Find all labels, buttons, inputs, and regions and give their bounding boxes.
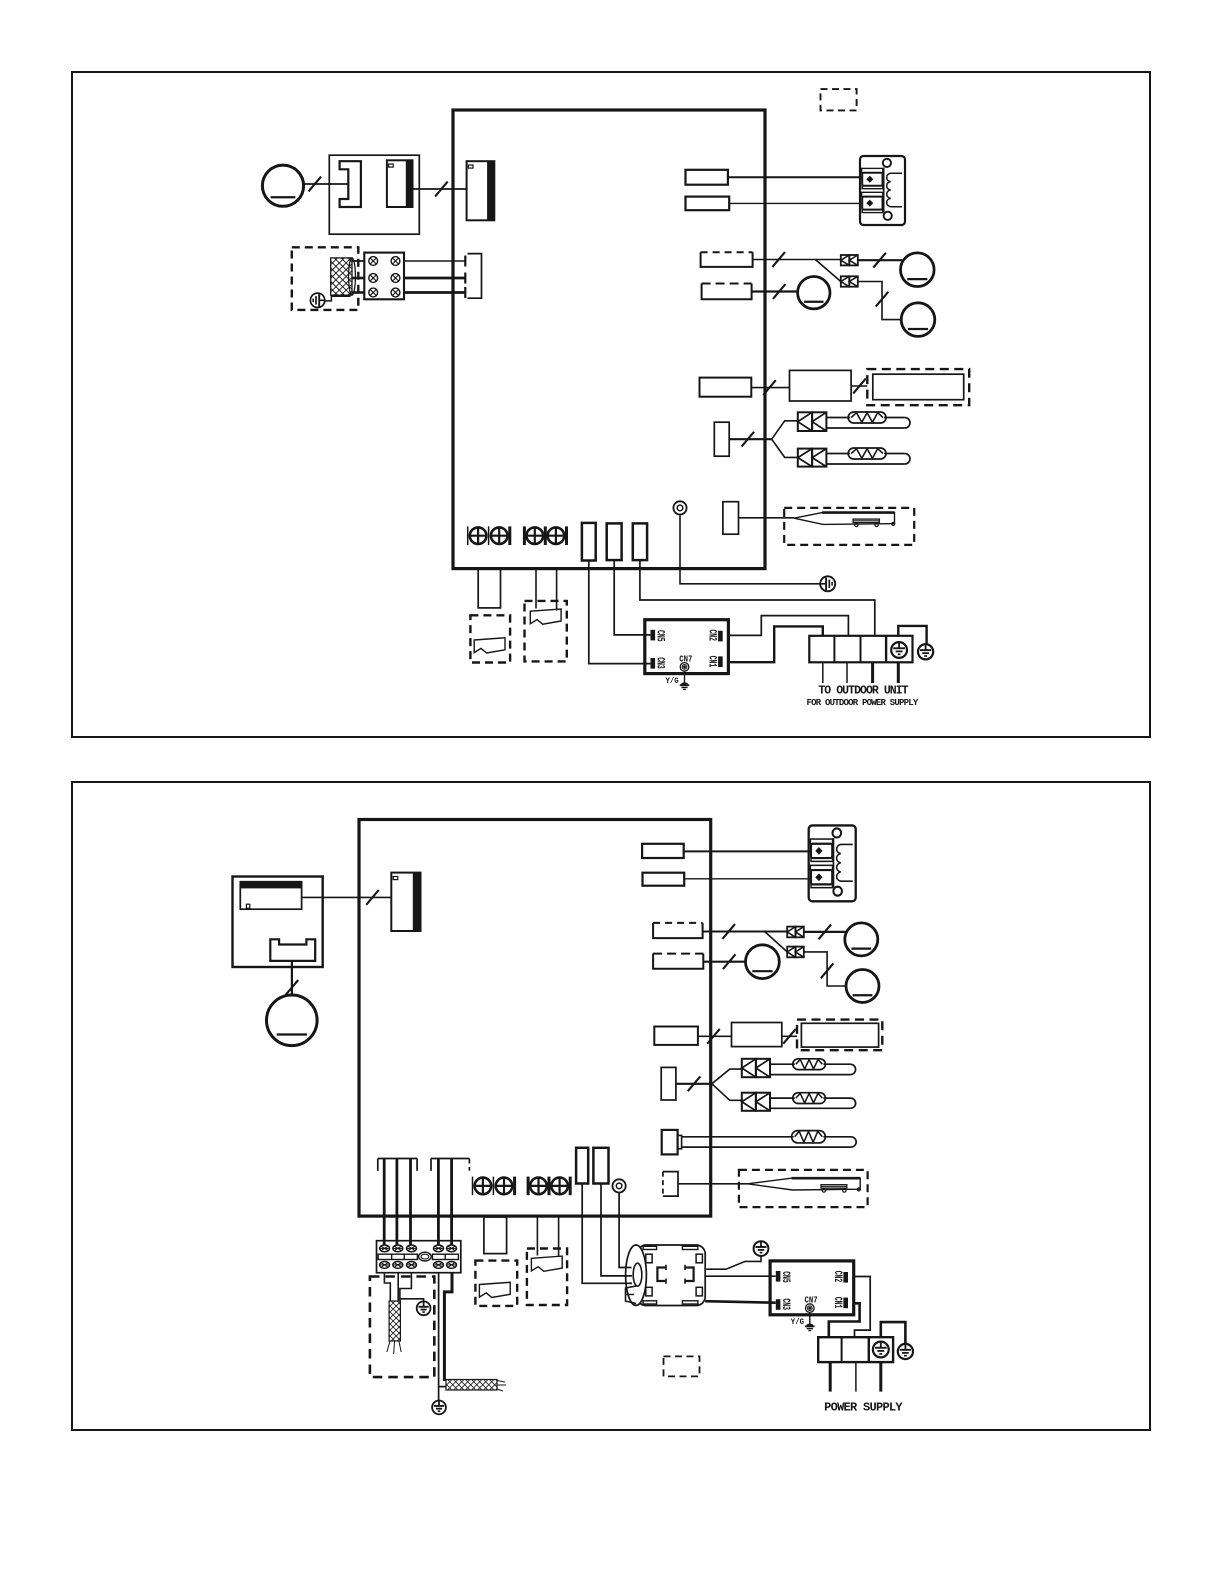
PCB fan connector (diagram 1) [467, 161, 495, 220]
external earth wire [898, 626, 926, 645]
PCB remote connector (diagram 2) [391, 873, 420, 931]
chassis earth (diagram 2) [754, 1241, 769, 1256]
fan motor (diagram 1) [262, 165, 303, 206]
wire X2 to motor 2 [858, 282, 902, 320]
dashed-top box R3 (diagram 2) [653, 923, 703, 938]
external earth wire (diagram 2) [881, 1322, 906, 1344]
wires comb2 to indoor block [438, 1159, 451, 1246]
cord ground [310, 293, 324, 307]
wire to sensor (diagram 2) [678, 1183, 748, 1185]
svg-text:CN2: CN2 [706, 629, 718, 641]
temperature sensor probe (diagram 2) [748, 1178, 861, 1192]
heater connector X3 (diagram 2) [742, 1059, 770, 1077]
battery tray [270, 939, 315, 961]
connector slot 2 (diagram 2) [593, 1148, 608, 1184]
connector flag A (diagram 2) [479, 1282, 510, 1297]
earth wire 4 [439, 1273, 446, 1401]
terminal box R1 [686, 170, 728, 185]
wire remote to PCB connector [302, 890, 392, 905]
wire to cord earth [400, 1299, 423, 1302]
electric heater 1 [826, 412, 910, 428]
indoor terminal block (diagram 2) [377, 1241, 461, 1273]
dashed display box [867, 369, 969, 405]
comb connector 2 [431, 1159, 469, 1171]
wire X1 to motor (diagram 2) [804, 924, 846, 939]
power plug component (diagram 1) [860, 156, 905, 225]
capacitor box [329, 155, 419, 234]
branch diagonal to X2 [815, 260, 841, 282]
svg-text:CN5: CN5 [654, 630, 666, 642]
svg-text:Y/G: Y/G [666, 676, 679, 686]
wire CN2 to outdoor terminal 2 [729, 616, 849, 636]
heater connector X4 (diagram 2) [742, 1093, 770, 1111]
connector slot 3 [633, 523, 647, 560]
wire grommet to ferrite [619, 1193, 631, 1268]
louver motor 1 (diagram 1) [901, 253, 935, 287]
wire V1 to junction [729, 432, 772, 447]
dashed-top box R4 (diagram 2) [653, 954, 703, 969]
power cord dashed box (diagram 2) [370, 1277, 434, 1378]
diagram 2 frame [72, 782, 1150, 1430]
connector flag B (diagram 1) [530, 609, 561, 624]
svg-text:Y/G: Y/G [791, 1317, 804, 1327]
louver motor 3 (diagram 2) [846, 970, 879, 1003]
wire display to dashed box (diagram 2) [782, 1029, 797, 1044]
dashed connector box B (diagram 2) [527, 1249, 567, 1306]
heater connector X4 [798, 449, 827, 467]
sensor dashed box (diagram 2) [739, 1170, 868, 1207]
relay connector in capacitor box [387, 160, 413, 207]
cord wires [384, 1273, 411, 1301]
wire R2 to plug [729, 202, 862, 204]
wire X2 to motor 3 (diagram 2) [804, 952, 845, 986]
external earth (diagram 1) [918, 644, 933, 659]
terminal box R2 (diagram 2) [643, 873, 685, 886]
temperature sensor probe (diagram 1) [794, 513, 895, 527]
wires below screws B [536, 569, 557, 611]
remote display [240, 882, 301, 910]
wire V2 to sensor [739, 517, 795, 519]
wire R3 to connector X1 [753, 252, 841, 267]
wire R4 to motor 2 (diagram 2) [703, 954, 745, 969]
electric heater 2 [826, 448, 910, 464]
terminal box R5 [700, 378, 752, 397]
connector slot 2 [607, 523, 622, 560]
wire CN1 to outdoor terminal 1 [729, 626, 823, 662]
electric heater 2 (diagram 2) [770, 1093, 856, 1109]
sensor connector V2 [723, 502, 739, 535]
wire display to dashed box [851, 379, 867, 394]
electric heater 1 (diagram 2) [770, 1059, 856, 1075]
wire slot2 to ferrite [601, 1184, 632, 1276]
grommet double circle (diagram 1) [673, 501, 686, 514]
wire V1 to junction (diagram 2) [676, 1076, 712, 1091]
connector X2 [841, 276, 858, 286]
wire R2 to plug (diagram 2) [684, 878, 810, 880]
junction branches [772, 421, 798, 458]
svg-text:CN1: CN1 [831, 1297, 843, 1309]
diagram 1 frame [72, 72, 1150, 737]
wire cord ground to coil [325, 296, 351, 301]
wire ferrite to CN5 [705, 1275, 776, 1277]
louver motor 2 (diagram 2) [746, 945, 780, 979]
wire chassis earth to ferrite [706, 1256, 761, 1269]
wire ferrite to CN3 [705, 1301, 776, 1303]
cable stub below screws A (diagram 2) [484, 1217, 507, 1254]
louver motor 1 (diagram 2) [845, 923, 878, 956]
sensor dashed box (diagram 1) [784, 508, 914, 545]
power cord dashed box (diagram 1) [292, 247, 359, 310]
indoor terminal block (diagram 1) [364, 253, 404, 300]
PCB power connector bracket [465, 254, 481, 299]
connector flag B (diagram 2) [531, 1256, 562, 1271]
cord braid [387, 1301, 401, 1354]
external earth (diagram 2) [898, 1344, 913, 1359]
wires below screws B (diagram 2) [537, 1216, 558, 1257]
ferrite core filter [626, 1245, 706, 1306]
dashed-top box R3 [701, 252, 753, 267]
branch diagonal to X2 (diagram 2) [765, 932, 788, 952]
wires coil to terminal block [352, 261, 364, 293]
remote controller box [233, 877, 323, 968]
svg-text:CN3: CN3 [654, 657, 666, 669]
svg-text:POWER SUPPLY: POWER SUPPLY [824, 1401, 903, 1415]
terminal earth (diagram 1) [891, 642, 907, 658]
cable stub below screws A [478, 569, 500, 608]
wires below power terminal [830, 1362, 881, 1392]
wire slot1 to ferrite [582, 1184, 632, 1284]
comb connector 1 [378, 1159, 417, 1171]
display unit box [790, 370, 852, 401]
screw terminals B (diagram 1) [524, 526, 566, 545]
connector slot 1 (diagram 2) [576, 1148, 588, 1184]
indoor PCB (diagram 1) [453, 110, 765, 569]
cord earth (diagram 2) [417, 1301, 431, 1315]
terminal box R1 (diagram 2) [642, 844, 684, 858]
strain relief (diagram 1) [820, 576, 835, 591]
horizontal cord braid [446, 1380, 506, 1392]
display unit box (diagram 2) [732, 1023, 782, 1047]
control terminal box (diagram 1) [645, 620, 729, 690]
svg-text:TO OUTDOOR UNIT: TO OUTDOOR UNIT [818, 685, 908, 698]
dashed display box (diagram 2) [797, 1020, 882, 1051]
screw terminals A (diagram 2) [473, 1177, 515, 1196]
heater connector V1 [714, 422, 729, 456]
terminal box R5 (diagram 2) [654, 1027, 698, 1045]
power plug component (diagram 2) [809, 825, 856, 901]
wire CN2 to power terminal [854, 1277, 870, 1338]
control terminal box (diagram 2) [770, 1261, 854, 1331]
louver motor 3 (diagram 1) [798, 277, 830, 309]
dashed connector box A [470, 615, 510, 662]
svg-text:CN3: CN3 [779, 1298, 791, 1310]
junction branches (diagram 2) [712, 1069, 742, 1100]
indoor PCB (diagram 2) [359, 820, 711, 1217]
connector flag A (diagram 1) [474, 638, 505, 653]
wire slot2 to CN5 [614, 560, 650, 635]
connector X1 [841, 255, 858, 265]
thick supply wire 5 [444, 1273, 452, 1381]
sensor connector (diagram 2) [663, 1172, 678, 1197]
connector X2 (diagram 2) [787, 947, 804, 958]
connector X1 (diagram 2) [787, 927, 804, 938]
dashed connector box B [525, 601, 567, 662]
power terminal earth [873, 1342, 889, 1358]
wire R1 to plug [728, 176, 862, 178]
wire slot3 to outdoor terminal 3 [640, 560, 875, 636]
dashed option box (diagram 2) [664, 1356, 700, 1376]
screw terminals B (diagram 2) [528, 1177, 570, 1196]
wire R5 to display unit [751, 380, 789, 395]
wires terminal block to PCB power connector [404, 261, 465, 293]
electric heater 3 (diagram 2) [682, 1131, 857, 1147]
dashed connector box A (diagram 2) [475, 1261, 517, 1306]
wire remote to motor [286, 961, 299, 995]
terminal box R2 [686, 197, 730, 211]
wire R4 to motor 3 [752, 284, 798, 299]
power terminal block [818, 1337, 893, 1362]
louver motor 2 (diagram 1) [901, 303, 935, 337]
svg-text:FOR OUTDOOR POWER SUPPLY: FOR OUTDOOR POWER SUPPLY [807, 698, 919, 708]
wire R5 to display (diagram 2) [698, 1029, 732, 1044]
dashed-top box R4 [702, 284, 752, 300]
wires below outdoor terminal [823, 662, 899, 683]
dashed option box (diagram 1 top) [821, 89, 857, 110]
svg-text:CN5: CN5 [779, 1271, 791, 1283]
bottom earth (diagram 2) [432, 1401, 446, 1415]
wire grommet to strain relief [680, 515, 820, 584]
capacitor element [329, 161, 361, 207]
wire motor to capacitor box [304, 177, 330, 192]
fan motor (diagram 2) [267, 995, 318, 1046]
wire R3 to X1 (diagram 2) [703, 924, 788, 939]
outdoor terminal block [809, 636, 912, 663]
single heater block [662, 1130, 682, 1155]
wires comb1 to indoor block [384, 1159, 410, 1246]
svg-text:CN1: CN1 [706, 656, 718, 668]
connector slot 1 [582, 523, 596, 561]
wire capacitor box to PCB connector [413, 182, 467, 197]
cord coil [331, 258, 356, 295]
grommet double circle (diagram 2) [613, 1179, 626, 1192]
wire stubs into ferrite hole [625, 1268, 633, 1284]
heater connector V1 (diagram 2) [661, 1067, 676, 1100]
svg-text:CN2: CN2 [831, 1271, 843, 1283]
wire CN1 to power terminal [829, 1303, 860, 1337]
wire slot1 to CN3 [589, 561, 651, 664]
wire X1 to motor [858, 253, 902, 268]
screw terminals A (diagram 1) [468, 526, 510, 545]
wire R1 to plug (diagram 2) [684, 850, 811, 852]
heater connector X3 [798, 412, 827, 431]
